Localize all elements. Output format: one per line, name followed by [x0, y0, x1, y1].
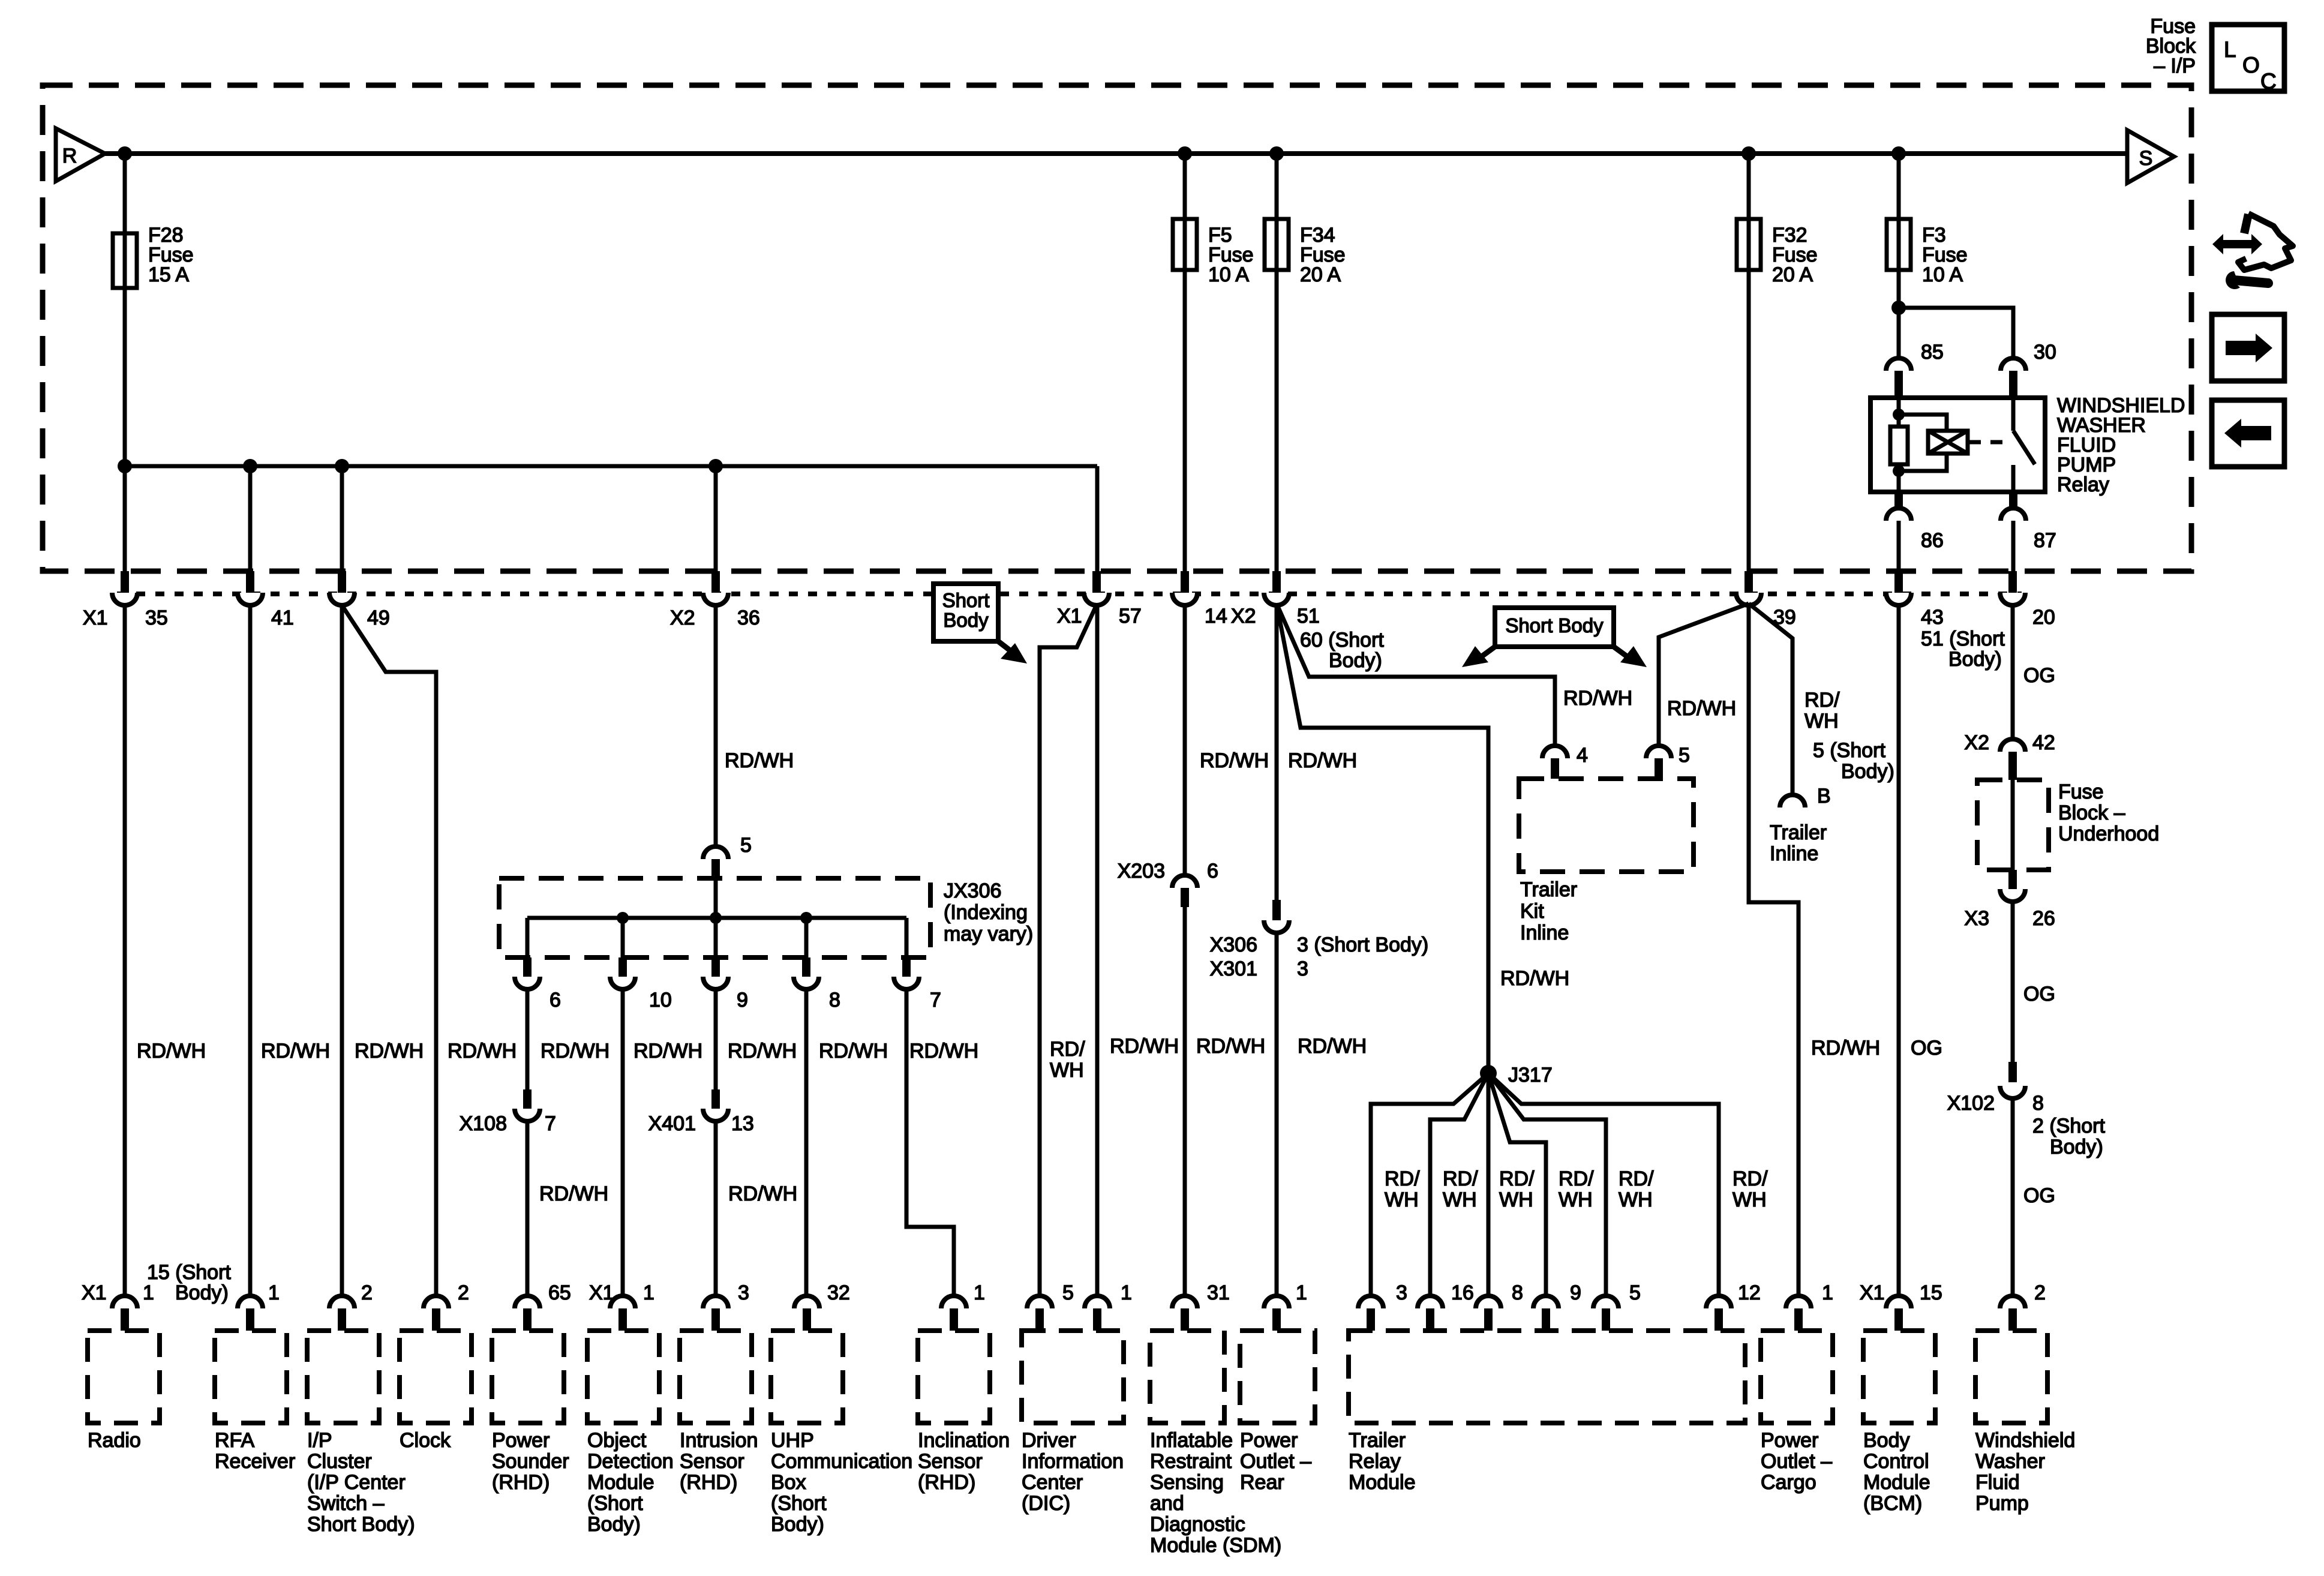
svg-text:Short Body): Short Body): [307, 1513, 415, 1536]
wire power outlet rear lower: [1275, 933, 1279, 1297]
svg-text:6: 6: [1207, 860, 1218, 882]
svg-text:Short Body: Short Body: [1505, 614, 1604, 637]
fuse block I/P dashed border: [43, 85, 2191, 571]
svg-text:(DIC): (DIC): [1022, 1492, 1070, 1515]
svg-text:9: 9: [1570, 1281, 1581, 1304]
svg-text:X1: X1: [1860, 1281, 1885, 1304]
connector pin X1 57: [1092, 571, 1101, 593]
wire resistor bottom: [1897, 464, 1901, 492]
svg-text:9: 9: [737, 989, 748, 1011]
trailer kit inline box: [1519, 779, 1694, 872]
wire inclination feed: [906, 989, 954, 1297]
svg-text:Intrusion: Intrusion: [680, 1429, 758, 1452]
svg-text:Trailer: Trailer: [1520, 878, 1577, 901]
svg-text:RD/WH: RD/WH: [909, 1040, 978, 1062]
wire intrusion feed upper: [714, 989, 718, 1089]
svg-text:RD/: RD/: [1733, 1167, 1768, 1190]
wire switch to pin 87: [2011, 465, 2016, 492]
svg-text:X2: X2: [1231, 605, 1256, 628]
callout Short Body trailer kit: [1495, 608, 1614, 647]
JX306 internal bus: [527, 916, 906, 920]
svg-text:1: 1: [974, 1281, 985, 1304]
component box Object: [587, 1331, 659, 1423]
svg-text:– I/P: – I/P: [2154, 55, 2196, 77]
connector pin 41: [246, 571, 254, 593]
node S arrow: [2127, 130, 2174, 183]
relay coil box: [1928, 431, 1968, 454]
connector pin 49: [338, 571, 346, 593]
wire IP cluster feed: [340, 605, 344, 1297]
svg-text:2 (Short: 2 (Short: [2032, 1115, 2105, 1137]
relay pin 87: [2009, 492, 2017, 511]
svg-text:Driver: Driver: [1022, 1429, 1076, 1452]
wire drop 41: [248, 466, 253, 571]
inline connector X108 7: [523, 1089, 532, 1109]
svg-text:1: 1: [268, 1281, 280, 1304]
svg-text:1: 1: [143, 1281, 154, 1304]
svg-text:(Short: (Short: [587, 1492, 643, 1515]
wire power sounder feed lower: [526, 1121, 530, 1297]
svg-text:(BCM): (BCM): [1863, 1492, 1922, 1515]
svg-text:X2: X2: [670, 607, 695, 629]
wire J317 to TRM pin 9: [1488, 1073, 1546, 1297]
JX306 stub 8: [804, 918, 809, 957]
svg-text:RD/: RD/: [1385, 1167, 1420, 1190]
wire to relay pin 30: [1899, 308, 2013, 358]
svg-text:Short: Short: [942, 589, 990, 611]
svg-text:RD/: RD/: [1050, 1038, 1085, 1061]
wire object detection feed: [621, 989, 625, 1297]
component pin connector: [238, 1296, 263, 1308]
svg-text:Control: Control: [1863, 1450, 1929, 1473]
svg-text:1: 1: [1822, 1281, 1833, 1304]
svg-text:WH: WH: [1385, 1188, 1419, 1211]
svg-text:10 A: 10 A: [1208, 263, 1249, 286]
svg-text:Module: Module: [1863, 1471, 1930, 1494]
wire radio feed: [123, 605, 127, 1297]
JX306 output pin 7: [902, 957, 911, 977]
wire F3 drop: [1897, 154, 1901, 358]
svg-text:RD/WH: RD/WH: [819, 1040, 888, 1062]
svg-text:X108: X108: [460, 1112, 507, 1135]
wire F3 to relay pin 85: [1897, 288, 1901, 358]
svg-text:1: 1: [643, 1281, 654, 1304]
component pin connector: [1264, 1296, 1289, 1308]
wire pin 86 down: [1897, 521, 1901, 571]
junction bus-F34: [1269, 146, 1284, 161]
svg-text:42: 42: [2032, 731, 2055, 754]
svg-text:1: 1: [1296, 1281, 1307, 1304]
svg-text:7: 7: [545, 1112, 556, 1135]
wire intrusion feed lower: [714, 1121, 718, 1297]
wire SDM feed upper: [1183, 605, 1187, 875]
svg-text:WH: WH: [1443, 1188, 1477, 1211]
wire power outlet cargo: [1749, 605, 1798, 1297]
svg-text:2: 2: [361, 1281, 373, 1304]
relay U box WINDSHIELD WASHER FLUID PUMP Relay: [1870, 398, 2045, 492]
wire 39 to trailer inline B: [1749, 604, 1792, 795]
svg-text:Body): Body): [2050, 1136, 2103, 1158]
component box Power: [492, 1331, 564, 1423]
fuse block underhood box: [1977, 780, 2049, 870]
component pin connector: [1593, 1296, 1619, 1308]
resistor relay coil-resistor: [1890, 427, 1908, 464]
connector row dotted line: [117, 592, 2022, 596]
svg-text:Box: Box: [771, 1471, 806, 1494]
wire drop 49: [340, 466, 344, 571]
svg-text:Pump: Pump: [1975, 1492, 2029, 1515]
arrow-right box: [2212, 314, 2284, 381]
junction bus-F3: [1891, 146, 1906, 161]
component box Trailer: [1349, 1331, 1745, 1423]
svg-text:2: 2: [2034, 1281, 2046, 1304]
svg-text:Outlet –: Outlet –: [1761, 1450, 1832, 1473]
svg-text:WH: WH: [1499, 1188, 1533, 1211]
wire DIC pin5 feed: [1040, 604, 1097, 1297]
svg-text:WH: WH: [1804, 710, 1839, 733]
relay actuator dashed link: [1968, 440, 2002, 445]
svg-text:Trailer: Trailer: [1349, 1429, 1406, 1452]
svg-text:X102: X102: [1947, 1092, 1995, 1115]
svg-text:3: 3: [1297, 957, 1308, 980]
svg-text:RD/: RD/: [1443, 1167, 1478, 1190]
harness routing icon: [2212, 234, 2262, 254]
svg-text:Cluster: Cluster: [307, 1450, 372, 1473]
svg-text:R: R: [62, 145, 77, 167]
svg-text:may vary): may vary): [944, 923, 1033, 945]
svg-text:C: C: [2260, 69, 2277, 94]
svg-text:32: 32: [827, 1281, 850, 1304]
wire 39 to trailer kit pin 5: [1659, 604, 1749, 746]
arrow-left box: [2212, 400, 2284, 467]
callout Short Body DIC: [933, 584, 998, 641]
svg-text:20 A: 20 A: [1300, 263, 1341, 286]
wire DIC pin1 feed: [1095, 605, 1100, 1297]
svg-text:I/P: I/P: [307, 1429, 332, 1452]
svg-text:3: 3: [738, 1281, 749, 1304]
svg-text:Inline: Inline: [1520, 921, 1569, 944]
svg-text:5: 5: [740, 834, 752, 857]
svg-text:8: 8: [1512, 1281, 1523, 1304]
svg-text:Sensor: Sensor: [918, 1450, 983, 1473]
svg-text:(RHD): (RHD): [492, 1471, 550, 1494]
junction relay feed: [1891, 301, 1906, 315]
svg-text:Sensing: Sensing: [1150, 1471, 1224, 1494]
svg-text:8: 8: [829, 989, 840, 1011]
connector pin 39: [1744, 571, 1753, 593]
wire coil loop: [1899, 415, 1947, 431]
wire 51 to trailer kit pin 4: [1277, 604, 1555, 746]
component box Clock: [400, 1331, 472, 1423]
wire F34 drop: [1275, 154, 1279, 571]
svg-text:Sensor: Sensor: [680, 1450, 744, 1473]
svg-text:(RHD): (RHD): [680, 1471, 737, 1494]
component box Power: [1761, 1331, 1833, 1423]
svg-text:RD/WH: RD/WH: [137, 1040, 206, 1062]
svg-text:RD/WH: RD/WH: [728, 1182, 797, 1205]
junction bus-F5: [1178, 146, 1192, 161]
svg-text:Module: Module: [587, 1471, 654, 1494]
svg-text:Diagnostic: Diagnostic: [1150, 1513, 1245, 1536]
relay switch wire: [2011, 398, 2016, 431]
svg-text:UHP: UHP: [771, 1429, 814, 1452]
junction coil top: [1893, 409, 1905, 421]
svg-text:5: 5: [1062, 1281, 1074, 1304]
svg-text:RD/WH: RD/WH: [1288, 749, 1357, 772]
svg-text:JX306: JX306: [944, 879, 1001, 902]
svg-text:RFA: RFA: [215, 1429, 254, 1452]
svg-text:WH: WH: [1050, 1059, 1084, 1082]
svg-text:86: 86: [1921, 529, 1944, 552]
inline connector X306 X301: [1272, 900, 1281, 920]
main power bus wire: [104, 151, 2127, 156]
relay coil wire: [1897, 398, 1901, 427]
JX306 stub 10: [621, 918, 625, 957]
svg-text:2: 2: [458, 1281, 469, 1304]
svg-text:RD/: RD/: [1499, 1167, 1535, 1190]
svg-text:Inflatable: Inflatable: [1150, 1429, 1233, 1452]
svg-text:B: B: [1817, 785, 1831, 807]
component box Intrusion: [680, 1331, 752, 1423]
wire F28 drop: [123, 154, 127, 571]
svg-text:X301: X301: [1210, 957, 1257, 980]
svg-text:Module: Module: [1349, 1471, 1416, 1494]
wire F32 drop: [1747, 154, 1751, 571]
svg-text:Rear: Rear: [1240, 1471, 1284, 1494]
svg-text:Restraint: Restraint: [1150, 1450, 1232, 1473]
component box Body: [1863, 1331, 1935, 1423]
svg-text:X3: X3: [1964, 907, 1989, 930]
connector pin 43: [1894, 571, 1903, 593]
JX306 output pin 6: [523, 957, 532, 977]
svg-text:15 (Short: 15 (Short: [147, 1261, 231, 1284]
svg-text:7: 7: [930, 989, 941, 1011]
component pin connector: [794, 1296, 819, 1308]
svg-text:8: 8: [2032, 1092, 2044, 1115]
component pin connector: [329, 1296, 355, 1308]
svg-text:Center: Center: [1022, 1471, 1083, 1494]
svg-text:51: 51: [1297, 605, 1320, 628]
component pin connector: [1476, 1296, 1501, 1308]
component pin connector: [1533, 1296, 1559, 1308]
svg-text:(Indexing: (Indexing: [944, 901, 1028, 924]
svg-text:Trailer: Trailer: [1770, 821, 1827, 844]
wire J317 to TRM pin 12: [1488, 1073, 1719, 1297]
wire power sounder feed upper: [526, 989, 530, 1089]
svg-text:Relay: Relay: [1349, 1450, 1401, 1473]
svg-text:OG: OG: [2023, 664, 2055, 687]
svg-text:Underhood: Underhood: [2058, 822, 2159, 845]
svg-text:Washer: Washer: [1975, 1450, 2045, 1473]
svg-text:4: 4: [1577, 744, 1588, 767]
svg-text:Windshield: Windshield: [1975, 1429, 2075, 1452]
svg-text:Body): Body): [771, 1513, 824, 1536]
svg-text:X203: X203: [1118, 860, 1165, 882]
svg-text:OG: OG: [2023, 983, 2055, 1005]
svg-text:RD/WH: RD/WH: [541, 1040, 609, 1062]
component pin connector: [703, 1296, 728, 1308]
svg-text:Communication: Communication: [771, 1450, 912, 1473]
connector 5 at JX306: [703, 846, 728, 859]
svg-text:WH: WH: [1619, 1188, 1653, 1211]
relay pin 86: [1894, 492, 1903, 511]
component pin connector: [1358, 1296, 1383, 1308]
svg-text:Radio: Radio: [88, 1429, 141, 1452]
svg-text:Power: Power: [1240, 1429, 1298, 1452]
svg-text:X2: X2: [1964, 731, 1989, 754]
wire washer pump middle: [2011, 902, 2015, 1062]
wire J317 to TRM pin 16: [1430, 1073, 1488, 1297]
component pin connector: [1706, 1296, 1731, 1308]
component box Inclination: [918, 1331, 990, 1423]
svg-text:L: L: [2224, 37, 2236, 62]
JX306 stub 7: [905, 918, 909, 957]
wire J317 to TRM pin 3: [1371, 1073, 1488, 1297]
svg-text:16: 16: [1451, 1281, 1474, 1304]
JX306 output pin 10: [618, 957, 627, 977]
svg-text:S: S: [2139, 147, 2153, 170]
junction J317: [1480, 1065, 1497, 1082]
component pin connector: [2000, 1296, 2025, 1308]
svg-text:Fluid: Fluid: [1975, 1471, 2020, 1494]
fuse F5: [1173, 219, 1197, 270]
svg-text:87: 87: [2034, 529, 2056, 552]
component box Radio: [88, 1331, 160, 1423]
wire 60 to J317: [1277, 604, 1488, 1073]
wire BCM feed: [1897, 605, 1901, 1297]
wire pin 87 down: [2011, 521, 2016, 571]
connector pin 20: [2008, 571, 2017, 593]
svg-text:(Short: (Short: [771, 1492, 827, 1515]
inline connector X401 13: [711, 1089, 720, 1109]
svg-text:(RHD): (RHD): [918, 1471, 975, 1494]
fuse F32: [1737, 219, 1761, 270]
svg-text:13: 13: [731, 1112, 754, 1135]
svg-text:J317: J317: [1508, 1064, 1553, 1086]
svg-text:RD/WH: RD/WH: [1200, 749, 1269, 772]
component pin connector: [1085, 1296, 1110, 1308]
svg-text:26: 26: [2032, 907, 2055, 930]
trailer kit pin 5: [1646, 746, 1671, 758]
svg-text:Fuse: Fuse: [2058, 781, 2104, 803]
svg-text:Sounder: Sounder: [492, 1450, 569, 1473]
inline connector X102: [2008, 1062, 2017, 1082]
svg-text:Outlet –: Outlet –: [1240, 1450, 1311, 1473]
relay switch blade: [2013, 431, 2035, 464]
JX306 output pin 9: [711, 957, 720, 977]
svg-text:RD/WH: RD/WH: [539, 1182, 608, 1205]
svg-text:49: 49: [367, 607, 390, 629]
svg-text:Detection: Detection: [587, 1450, 674, 1473]
junction 49: [335, 459, 349, 473]
svg-text:6: 6: [550, 989, 561, 1011]
svg-text:Block –: Block –: [2058, 801, 2125, 824]
svg-text:RD/WH: RD/WH: [1298, 1035, 1367, 1058]
svg-text:5 (Short: 5 (Short: [1813, 739, 1885, 762]
svg-text:5: 5: [1679, 744, 1690, 767]
connector pin 51: [1272, 571, 1281, 593]
svg-text:85: 85: [1921, 341, 1944, 364]
JX306 stub 9: [714, 878, 718, 957]
svg-text:RD/WH: RD/WH: [261, 1040, 330, 1062]
svg-text:RD/WH: RD/WH: [355, 1040, 424, 1062]
connector trailer inline B: [1780, 795, 1805, 807]
connector X3 26 underhood: [2008, 870, 2017, 889]
svg-text:O: O: [2242, 53, 2260, 77]
svg-text:65: 65: [548, 1281, 571, 1304]
svg-text:RD/: RD/: [1804, 689, 1840, 712]
component box RFA: [215, 1331, 287, 1423]
wire drop X1 57: [1095, 466, 1100, 571]
component pin connector: [112, 1296, 137, 1308]
svg-text:Kit: Kit: [1520, 900, 1544, 923]
relay pin 30: [2001, 358, 2026, 371]
svg-text:RD/WH: RD/WH: [728, 1040, 797, 1062]
relay pin 85: [1886, 358, 1911, 371]
svg-text:51 (Short: 51 (Short: [1921, 628, 2005, 650]
svg-text:X306: X306: [1210, 933, 1257, 956]
svg-text:Body): Body): [587, 1513, 641, 1536]
wire power outlet rear upper: [1275, 605, 1279, 900]
svg-text:Clock: Clock: [400, 1429, 451, 1452]
LOC location box: [2212, 25, 2284, 91]
inline connector X203 6: [1172, 875, 1197, 888]
junction block JX306: [499, 878, 930, 957]
svg-text:X1: X1: [83, 607, 108, 629]
component pin connector: [424, 1296, 449, 1308]
svg-text:Cargo: Cargo: [1761, 1471, 1816, 1494]
component box Inflatable: [1150, 1331, 1224, 1423]
svg-text:Power: Power: [492, 1429, 550, 1452]
fuse F34: [1265, 219, 1289, 270]
svg-text:RD/WH: RD/WH: [1196, 1035, 1265, 1058]
wire clock feed: [342, 605, 436, 1297]
component pin connector: [1786, 1296, 1811, 1308]
svg-text:Inclination: Inclination: [918, 1429, 1010, 1452]
wire drop X2 36: [714, 466, 718, 571]
wire RFA feed: [248, 605, 253, 1297]
svg-text:(I/P Center: (I/P Center: [307, 1471, 406, 1494]
svg-text:57: 57: [1119, 605, 1142, 628]
svg-text:10: 10: [649, 989, 672, 1011]
junction F28-secondbus: [118, 459, 132, 473]
svg-text:WH: WH: [1559, 1188, 1593, 1211]
node R arrow: [56, 128, 105, 181]
svg-text:Body: Body: [943, 609, 989, 631]
svg-text:3: 3: [1396, 1281, 1407, 1304]
connector pin X2 36: [711, 571, 720, 593]
svg-text:X1: X1: [1057, 605, 1082, 628]
svg-text:5: 5: [1629, 1281, 1641, 1304]
wire through underhood block: [2011, 780, 2015, 870]
svg-text:RD/WH: RD/WH: [1667, 697, 1736, 720]
svg-text:Body): Body): [175, 1281, 229, 1304]
svg-text:Object: Object: [587, 1429, 647, 1452]
svg-text:35: 35: [145, 607, 168, 629]
wire washer pump lower: [2011, 1098, 2015, 1297]
svg-text:Receiver: Receiver: [215, 1450, 295, 1473]
svg-text:RD/: RD/: [1559, 1167, 1594, 1190]
junction coil bottom: [1893, 465, 1905, 477]
connector pin 14: [1181, 571, 1189, 593]
svg-text:OG: OG: [2023, 1184, 2055, 1207]
fuse F3: [1887, 219, 1911, 270]
component pin connector: [1172, 1296, 1197, 1308]
svg-text:Body): Body): [1329, 649, 1382, 672]
svg-text:20 A: 20 A: [1772, 263, 1813, 286]
wire X2-36 to JX306: [714, 605, 718, 846]
junction 41: [243, 459, 257, 473]
